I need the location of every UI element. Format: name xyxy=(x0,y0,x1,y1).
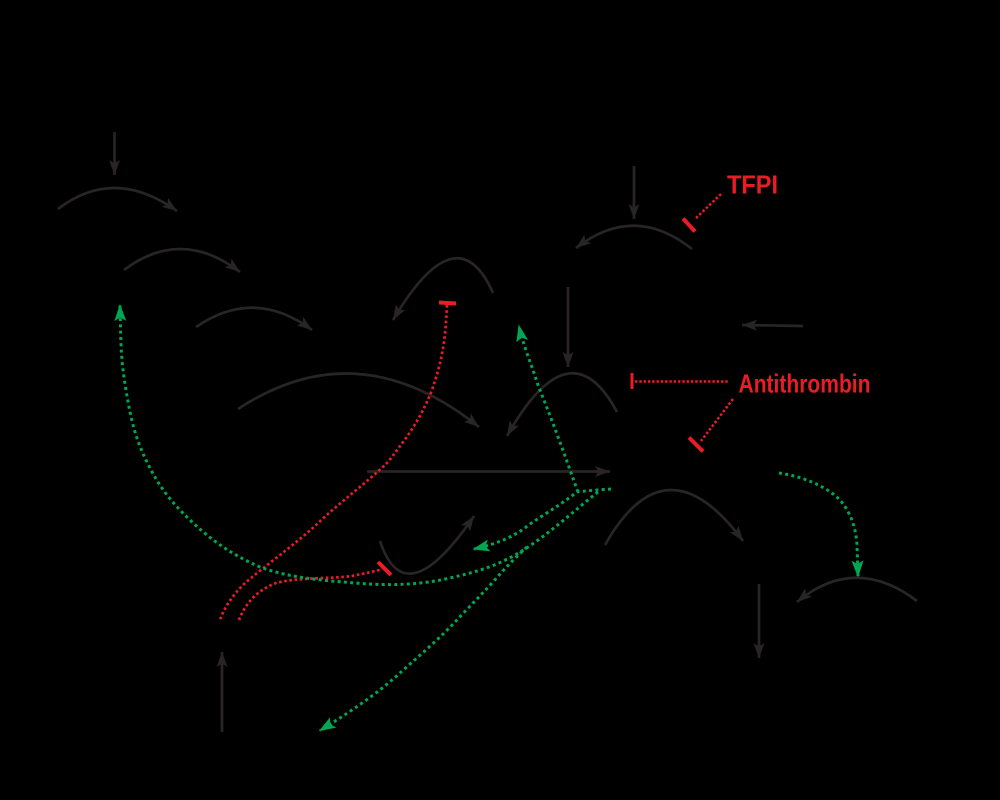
svg-text:TFPI: TFPI xyxy=(727,170,778,200)
svg-text:Antithrombin: Antithrombin xyxy=(739,368,871,398)
